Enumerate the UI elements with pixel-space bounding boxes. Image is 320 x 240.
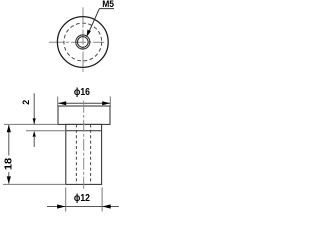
node top-view horizontal centerline [49,41,104,43]
knurled head outer circle (phi16 top view) [57,17,108,68]
leader line for M5 [89,9,114,31]
dimension phi16: left arrowhead [58,101,66,105]
svg-text:ϕ12: ϕ12 [74,193,90,204]
thread minor hole circle [77,37,88,48]
dimension 2: upper leader line [33,93,35,124]
dimension 2: up arrowhead [33,131,36,137]
dimension 2: down arrowhead [33,118,36,124]
extension line flange bottom to left (refs dim 2 and 18) [4,123,58,125]
knurl root dashed circle [64,23,102,61]
side view body rectangle [66,124,102,184]
dimension phi16: extension line left [57,96,59,106]
dimension 18: down arrowhead [7,176,11,183]
dimension phi12: dimension line [47,206,119,208]
hidden thread line right [90,124,92,184]
dimension phi16: extension line right [109,96,111,106]
extension line 2mm lower ref to left [26,130,66,132]
side view flange (head) rectangle [58,106,110,124]
thread major circle M5 [76,35,90,49]
svg-text:M5: M5 [102,0,114,9]
dimension 18: up arrowhead [7,125,11,132]
leader arrowhead [87,30,91,36]
dimension 18: dimension line [8,125,10,184]
dimension phi12: left outside arrowhead [57,204,66,208]
dimension phi16: right arrowhead [102,101,110,105]
svg-text:ϕ16: ϕ16 [74,87,90,98]
dimension 2: lower tail line [33,136,35,147]
svg-text:18: 18 [3,158,14,170]
extension line body bottom to left (ref dim 18) [3,183,66,185]
label 18 background [2,156,14,173]
dimension phi16: dimension line [58,102,110,104]
svg-text:2: 2 [21,100,31,105]
side view center line [83,101,85,190]
node top-view vertical centerline [82,7,84,73]
dimension phi12: extension line left [65,188,67,212]
body feature line at 2mm below head [66,130,102,132]
dimension phi12: right outside arrowhead [102,204,111,208]
hidden thread line left [75,124,77,184]
dimension phi12: extension line right [101,188,103,212]
